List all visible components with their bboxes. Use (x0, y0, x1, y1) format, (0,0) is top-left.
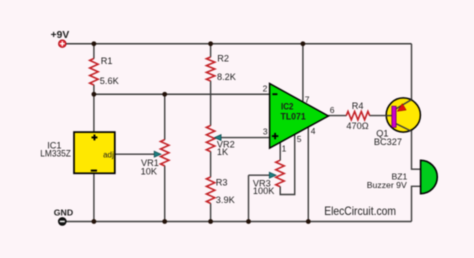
svg-text:Buzzer 9V: Buzzer 9V (367, 180, 407, 190)
svg-text:LM335Z: LM335Z (40, 148, 71, 158)
svg-text:BC327: BC327 (374, 137, 402, 147)
svg-text:R2: R2 (217, 54, 229, 64)
svg-text:ElecCircuit.com: ElecCircuit.com (324, 204, 396, 218)
svg-text:2: 2 (263, 84, 268, 94)
svg-text:4: 4 (311, 126, 316, 136)
svg-text:R3: R3 (216, 177, 228, 187)
svg-text:+9V: +9V (51, 30, 70, 41)
svg-text:R1: R1 (101, 56, 113, 66)
svg-text:3: 3 (263, 127, 268, 137)
svg-text:470Ω: 470Ω (346, 121, 368, 131)
svg-text:3.9K: 3.9K (216, 195, 236, 205)
svg-text:GND: GND (54, 208, 73, 218)
svg-text:100K: 100K (253, 186, 275, 196)
svg-text:R4: R4 (352, 101, 364, 111)
svg-text:5: 5 (297, 134, 302, 144)
svg-text:TL071: TL071 (281, 111, 307, 122)
svg-text:1K: 1K (217, 147, 229, 157)
svg-text:adj: adj (103, 150, 114, 159)
svg-text:8.2K: 8.2K (217, 72, 237, 82)
svg-text:10K: 10K (141, 166, 158, 176)
svg-text:7: 7 (305, 94, 310, 104)
svg-text:1: 1 (282, 144, 287, 154)
svg-text:6: 6 (330, 105, 335, 115)
svg-text:5.6K: 5.6K (100, 76, 120, 86)
